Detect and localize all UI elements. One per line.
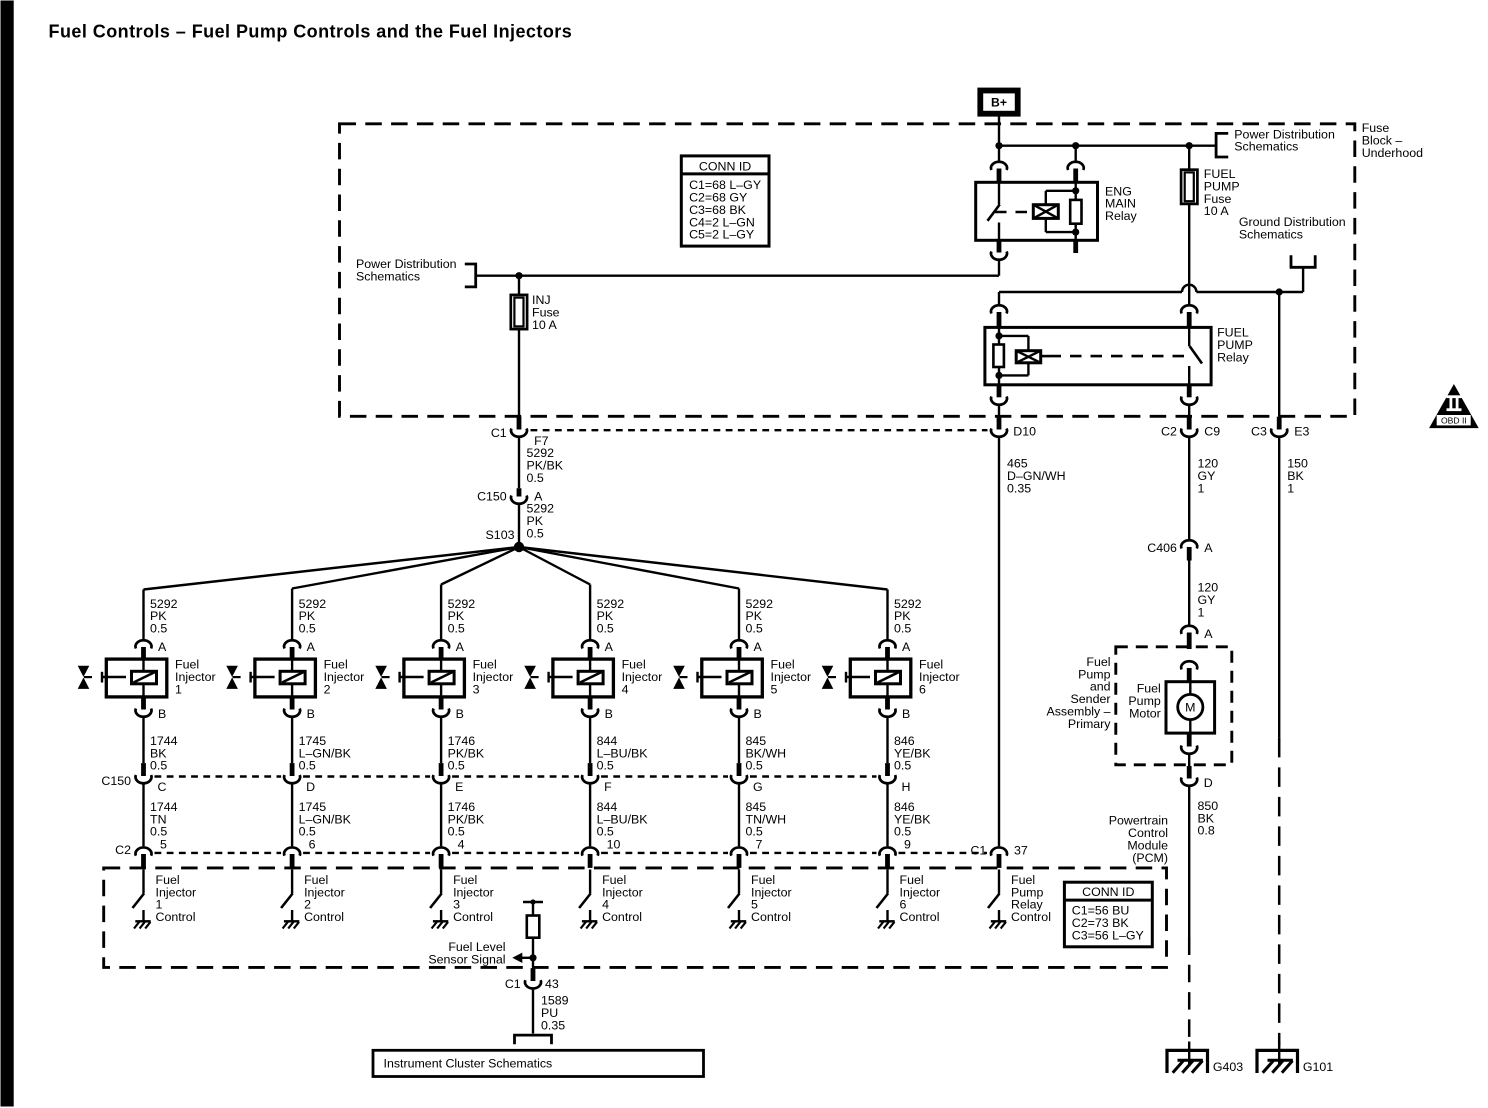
fuel injector 3 body [403,659,464,697]
Powertrain Control Module dashed box [103,867,1166,967]
svg-text:G403: G403 [1212,1059,1242,1073]
PCM driver switch: fuel injector 5 control [737,869,739,893]
fuel injector 1 inlet lead [100,671,102,682]
svg-text:C1: C1 [970,843,986,857]
svg-text:Control: Control [751,910,791,924]
svg-text:0.35: 0.35 [1007,481,1031,495]
ENG MAIN relay switch output pin [996,240,1001,252]
fuel injector 3 coil [429,671,454,684]
wire 120 GY 1 (lower) [1187,560,1189,624]
fuel injector 4 inlet lead [547,671,549,682]
OBD II marker triangle [1429,384,1479,428]
connector C1 pin 37 (PCM) [991,847,1007,855]
off-page bracket: Power Distribution Schematics (left) [464,264,475,287]
wire 1746 PK/BK [439,784,441,846]
svg-text:5: 5 [160,837,167,851]
svg-text:0.5: 0.5 [526,471,543,485]
fuel level sensor pull-up top bar [523,900,543,902]
svg-text:A: A [158,640,167,654]
connector C150 pin E [438,763,443,776]
svg-text:G: G [753,780,763,794]
connector C2 pin 5 (PCM) [135,847,151,855]
FUEL PUMP relay actuator dashed link [1040,354,1049,357]
fuel injector 5 coil [727,671,752,684]
svg-text:0.5: 0.5 [298,621,315,635]
wire 1746 PK/BK [439,717,441,762]
ENG MAIN relay coil output stub [1073,240,1078,253]
fuel injector 1 body [106,659,167,697]
harness dotted line C1 to D10 [530,429,987,431]
svg-text:C1: C1 [504,977,520,991]
FUEL PUMP relay switch output pin [1186,384,1191,397]
svg-text:S103: S103 [485,528,514,542]
PCM driver switch: fuel pump relay control [997,869,999,893]
svg-text:1: 1 [1197,481,1204,495]
svg-text:0.5: 0.5 [894,621,911,635]
wire: ground rail down to boundary [1277,292,1279,417]
svg-text:A: A [1204,541,1213,555]
junction node at ENG MAIN relay switch feed [995,142,1002,149]
fuel injector 4 coil [578,671,603,684]
connector C150 pin D [289,763,294,776]
svg-text:Control: Control [155,910,195,924]
connector C2 pin 7 (PCM) [731,847,747,855]
ENG MAIN relay resistor [1070,199,1081,223]
wire: bus down into FUEL PUMP fuse [1187,145,1189,169]
ENG MAIN relay coil (box with X) [1033,204,1058,218]
svg-text:6: 6 [919,682,926,696]
fuel injector 5 fuel valve symbol [673,665,685,676]
in-assembly connector [1181,661,1197,669]
PCM driver switch: fuel injector 1 control [142,869,144,893]
wire 1589 PU 0.35 [531,989,533,1033]
junction node coil/resistor top [1072,187,1079,194]
junction node at ENG MAIN relay coil feed [1072,142,1079,149]
battery feed B+ terminal box [980,90,1017,113]
Fuel Pump and Sender Assembly dashed box [1115,646,1231,764]
wire: FUEL PUMP fuse down to relay switch [1187,203,1189,303]
wire 1744 BK [142,717,144,762]
svg-text:Instrument Cluster Schematics: Instrument Cluster Schematics [383,1056,552,1070]
fuel injector 5 body [701,659,762,697]
connector half at ENG MAIN relay switch pin [991,161,1007,169]
svg-text:Sensor Signal: Sensor Signal [428,952,505,966]
svg-text:Control: Control [453,910,493,924]
wire 1745 L&#8211;GN/BK [290,784,292,846]
svg-text:Relay: Relay [1105,209,1137,223]
PCM driver switch: fuel injector 2 control [290,869,292,893]
connector at fuse block boundary x=1188.7 [1186,416,1191,429]
fuse block underhood dashed boundary box [339,123,1354,416]
svg-text:D: D [1203,776,1212,790]
svg-text:B: B [753,706,761,720]
fuel injector 2 body [254,659,315,697]
svg-text:B: B [604,706,612,720]
svg-text:0.5: 0.5 [596,758,613,772]
svg-text:Schematics: Schematics [1238,227,1302,241]
svg-text:10 A: 10 A [1203,204,1229,218]
fuel injector 6 body [850,659,911,697]
svg-text:Schematics: Schematics [356,269,420,283]
junction node fuel level sensor signal [529,954,536,961]
wire: INJ fuse down to C1 [517,329,519,416]
connector C150 pin G [736,763,741,776]
motor output connector (in assembly) [1186,733,1191,746]
svg-text:0.5: 0.5 [150,621,167,635]
connector pin A at fuel pump assembly [1181,625,1197,633]
wire: bus down to ENG MAIN relay pin (switch) [997,145,999,160]
svg-text:0.5: 0.5 [596,621,613,635]
junction node to E3 ground wire [1275,288,1282,295]
svg-text:B: B [306,706,314,720]
PCM driver switch: fuel injector 6 control [886,869,888,893]
wire: S103 fan to injector column x=887.0 [519,547,888,590]
connector pin B of fuel injector 3 [438,696,443,709]
connector C150 pin A (feed) [516,488,521,496]
ENG MAIN relay switch [997,182,999,204]
svg-text:C5=2 L–GY: C5=2 L–GY [689,227,754,241]
connector pin B of fuel injector 1 [141,696,146,709]
junction nodes on coil column [995,332,1002,339]
svg-text:H: H [901,780,910,794]
fuel injector 4 body [552,659,613,697]
svg-text:6: 6 [308,837,315,851]
wire 150 BK 1 [1277,437,1279,737]
svg-text:B: B [455,706,463,720]
svg-text:Control: Control [1011,910,1051,924]
svg-text:C150: C150 [101,774,131,788]
motor M circle [1177,694,1202,719]
signal arrow to Fuel Level Sensor [521,956,533,958]
FUEL PUMP relay coil column [997,327,999,344]
harness dotted line C2 row [154,851,281,853]
junction node at INJ fuse tap [515,272,522,279]
svg-text:43: 43 [545,977,559,991]
svg-text:C9: C9 [1204,424,1220,438]
wire: B+ down to bus [997,116,999,145]
wire 1744 TN [142,784,144,846]
connector pin B of fuel injector 6 [885,696,890,709]
svg-text:Control: Control [899,910,939,924]
svg-text:C: C [157,780,166,794]
FUEL PUMP relay coil (box with X) [1016,350,1040,362]
svg-text:C2: C2 [115,843,131,857]
wire: S103 fan to injector column x=738.5 [519,547,739,589]
svg-text:1: 1 [1287,481,1294,495]
svg-text:Underhood: Underhood [1361,145,1422,159]
svg-text:0.5: 0.5 [745,758,762,772]
svg-text:10: 10 [606,837,620,851]
wire: B+ distribution bus [999,144,1216,146]
connector pin A of fuel injector 1 [135,640,151,648]
off-page bracket to instrument cluster [514,1035,551,1044]
svg-text:5: 5 [770,682,777,696]
connector half at FUEL PUMP relay coil pin [991,305,1007,313]
svg-text:(PCM): (PCM) [1132,850,1168,864]
wire 1745 L&#8211;GN/BK [290,717,292,762]
relay K: FUEL PUMP Relay box [984,327,1210,384]
connector C150 pin F [587,763,592,776]
svg-text:B: B [902,706,910,720]
CONN ID table (fuse block underhood) [681,155,769,245]
wire 846 YE/BK [886,717,888,762]
svg-text:OBD II: OBD II [1441,415,1467,425]
off-page bracket: Power Distribution Schematics (right) [1216,133,1228,157]
fuel injector 1 coil [131,671,156,684]
fuel injector 5 inlet lead [696,671,698,682]
relay K: ENG MAIN Relay box [975,182,1097,240]
svg-text:2: 2 [323,682,330,696]
svg-text:E: E [455,780,463,794]
svg-text:CONN ID: CONN ID [1082,885,1134,899]
connector C1 pin 43 (PCM bottom) [530,968,535,981]
svg-text:Control: Control [602,910,642,924]
svg-text:4: 4 [621,682,628,696]
Instrument Cluster Schematics box [373,1050,704,1076]
ground distribution dashed wire to G101 [1277,737,1280,1045]
ENG MAIN relay actuator dashed link [995,210,1033,213]
wire: S103 fan to injector column x=143.0 [143,547,519,590]
harness dotted line C150 row [154,775,281,777]
wire 5292 PK 0.5 to S103 [517,504,519,546]
ENG MAIN relay coil parallel loop wiring [1044,190,1046,204]
junction node coil/resistor bottom [1072,228,1079,235]
svg-text:Motor: Motor [1129,706,1161,720]
svg-text:G101: G101 [1302,1059,1332,1073]
connector pin A of fuel injector 6 [879,640,895,648]
svg-text:9: 9 [904,837,911,851]
wire hop over fuse wire [1182,284,1196,291]
wire: bus down to ENG MAIN relay pin (coil) [1074,145,1076,160]
fuel injector 6 fuel valve symbol [821,665,833,676]
svg-text:0.5: 0.5 [745,621,762,635]
svg-text:A: A [455,640,464,654]
fuel injector 3 inlet lead [398,671,400,682]
svg-text:D: D [306,780,315,794]
svg-text:0.5: 0.5 [150,758,167,772]
fuel injector 6 inlet lead [844,671,846,682]
connector pin B of fuel injector 5 [736,696,741,709]
wire: FUEL PUMP relay coil to ground distribution rail [999,290,1182,292]
svg-text:A: A [902,640,911,654]
svg-text:1: 1 [175,682,182,696]
PCM driver switch: fuel injector 3 control [439,869,441,893]
fuse F7: INJ Fuse 10 A [510,294,526,328]
connector C150 pin C [141,763,146,776]
fuel injector 1 fuel valve symbol [77,665,89,676]
wire 846 YE/BK [886,784,888,846]
svg-text:0.5: 0.5 [447,621,464,635]
svg-text:Fuel Controls – Fuel Pump Cont: Fuel Controls – Fuel Pump Controls and t… [48,21,572,41]
svg-text:1: 1 [1197,605,1204,619]
wire: S103 fan to injector column x=589.6 [519,547,590,585]
svg-text:10 A: 10 A [532,317,558,331]
connector pin A of fuel injector 5 [731,640,747,648]
svg-text:E3: E3 [1294,424,1309,438]
svg-text:0.5: 0.5 [526,526,543,540]
connector pin A of fuel injector 4 [582,640,598,648]
svg-text:F: F [604,780,612,794]
ground G403 [1167,1050,1208,1073]
svg-text:A: A [1204,626,1213,640]
wire 844 L&#8211;BU/BK [588,784,590,846]
svg-text:Schematics: Schematics [1234,139,1298,153]
fuel level sensor pull-up resistor [526,915,539,937]
junction node at FUEL PUMP fuse feed [1185,142,1192,149]
FUEL PUMP relay switch [1187,327,1189,346]
svg-text:Relay: Relay [1217,350,1249,364]
FUEL PUMP relay coil loop [999,334,1028,336]
wire: S103 fan to injector column x=440.6 [441,547,519,585]
connector half at ENG MAIN relay coil pin [1067,161,1083,169]
CONN ID table (PCM) [1064,882,1152,947]
wire: ENG MAIN relay output to INJ fuse rail [997,260,999,275]
svg-text:B+: B+ [991,95,1007,109]
connector pin B of fuel injector 4 [587,696,592,709]
connector pin D below assembly [1186,766,1191,779]
svg-text:C3=56 L–GY: C3=56 L–GY [1071,928,1143,942]
connector C2 pin 9 (PCM) [879,847,895,855]
svg-text:D10: D10 [1013,424,1036,438]
ground G101 [1257,1050,1298,1073]
svg-text:C1: C1 [490,426,506,440]
svg-text:C150: C150 [477,489,507,503]
svg-text:B: B [158,706,166,720]
fuel injector 3 fuel valve symbol [375,665,387,676]
connector at fuse block boundary x=998.5 [996,416,1001,429]
wire: S103 fan to injector column x=291.6 [292,547,519,589]
wire: rail down to FUEL PUMP relay coil pin [997,292,999,304]
svg-text:0.35: 0.35 [541,1018,565,1032]
svg-text:0.8: 0.8 [1197,823,1214,837]
connector at fuse block boundary x=518.5 [516,416,521,429]
wire: rail down into INJ fuse [517,275,519,294]
connector C150 pin H [885,763,890,776]
svg-text:4: 4 [457,837,464,851]
fuse: FUEL PUMP Fuse 10 A [1181,169,1197,203]
wire 5292 PK/BK 0.5 [517,437,519,487]
svg-text:Primary: Primary [1067,716,1110,730]
svg-text:37: 37 [1014,843,1028,857]
fuel injector 4 fuel valve symbol [524,665,536,676]
fuel pump motor box [1166,681,1215,732]
fuel injector 2 coil [280,671,305,684]
connector C2 pin 4 (PCM) [433,847,449,855]
connector C2 pin 10 (PCM) [582,847,598,855]
svg-text:7: 7 [755,837,762,851]
ground distribution dashed wire to G403 [1187,937,1190,1045]
page edge black bar [0,0,13,1106]
wire 845 BK/WH [737,717,739,762]
svg-text:C3: C3 [1251,424,1267,438]
svg-text:A: A [604,640,613,654]
svg-text:M: M [1185,700,1195,714]
wire 850 BK 0.8 [1187,786,1189,937]
PCM driver switch: fuel injector 4 control [588,869,590,893]
connector pin A of fuel injector 2 [284,640,300,648]
svg-text:A: A [306,640,315,654]
svg-text:0.5: 0.5 [447,758,464,772]
fuel injector 2 fuel valve symbol [226,665,238,676]
wire 844 L&#8211;BU/BK [588,717,590,762]
connector C2 pin 6 (PCM) [284,847,300,855]
svg-text:3: 3 [472,682,479,696]
svg-text:CONN ID: CONN ID [698,159,750,173]
svg-text:0.5: 0.5 [298,758,315,772]
svg-text:Control: Control [304,910,344,924]
svg-text:C406: C406 [1147,541,1177,555]
svg-text:A: A [753,640,762,654]
wire 465 D-GN/WH 0.35 [997,437,999,845]
svg-text:C2: C2 [1161,424,1177,438]
svg-text:0.5: 0.5 [894,758,911,772]
connector pin A of fuel injector 3 [433,640,449,648]
off-page bracket: Ground Distribution Schematics [1291,255,1315,267]
wire 120 GY 1 (upper) [1187,437,1189,538]
fuel injector 6 coil [875,671,900,684]
FUEL PUMP relay resistor [993,344,1004,367]
fuel injector 2 inlet lead [249,671,251,682]
wire 845 TN/WH [737,784,739,846]
connector C406 pin A [1181,540,1197,548]
connector pin B of fuel injector 2 [289,696,294,709]
connector half at FUEL PUMP relay switch pin [1181,305,1197,313]
connector at fuse block boundary x=1278.7 [1276,416,1281,429]
FUEL PUMP relay coil output pin [996,384,1001,397]
